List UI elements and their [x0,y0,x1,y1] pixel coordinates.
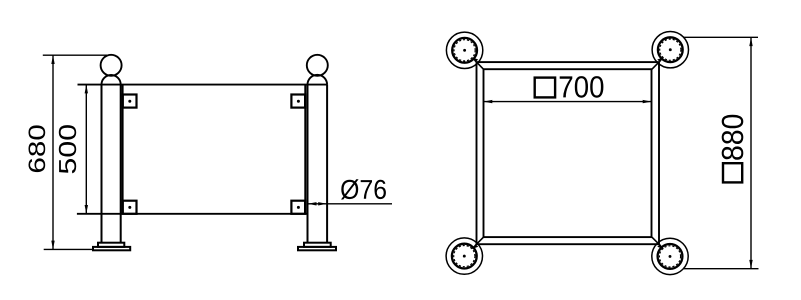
left post ball top [101,55,122,76]
dimension 500: arrow down [85,205,88,214]
right post base plate [298,247,336,250]
left post base step [98,243,124,247]
clip bottom-right [291,201,305,214]
label 680 (rotated) [29,125,46,172]
frame inner square [484,69,652,237]
wire: top rail line (panel top edge across both posts) [78,84,328,86]
dimension 680: arrow down [51,241,54,250]
left post body [101,85,103,243]
label square symbol of 880 (rotated block: square at bottom) [723,163,742,182]
dimension 700: arrow left [484,100,493,103]
dimension 880: dimension line [750,37,752,268]
right post ball top [307,55,328,76]
clip top-right [291,95,305,108]
dimension 880: arrow down [749,260,752,269]
dimension 880: extension line bottom [684,268,759,270]
right post dome cap [308,75,328,85]
post section top-right [652,32,688,68]
left post base plate [93,247,130,250]
wire: bottom rail line (panel bottom edge) [77,213,307,215]
frame outer square [477,62,660,244]
post section bottom-right [652,238,688,274]
corner chamfer bottom-left [477,237,484,244]
dimension 700: dimension line [484,101,652,103]
dimension 680: arrow up [51,55,54,64]
corner chamfer top-right [652,62,659,69]
dimension 500: dimension line [85,85,87,214]
dimension 680: dimension line [52,55,54,249]
label 880 (rotated) [722,115,744,160]
label square symbol of 700 [535,78,555,98]
dimension 680: extension line top [43,54,107,56]
panel left edge [122,85,124,214]
label O76 [341,179,386,199]
dimension 700: arrow right [643,100,652,103]
dimension O76: leader line [308,203,392,205]
corner chamfer bottom-right [652,237,659,244]
clip bottom-left [123,201,137,214]
right post base step [304,243,331,247]
dimension 880: extension line top [683,36,758,38]
dimension 680: extension line bottom [44,248,92,250]
clip top-left [123,95,137,108]
dimension 500: arrow up [85,85,88,94]
right post body [307,85,309,243]
label 700 [560,76,604,98]
post section top-left [446,32,482,68]
label 500 (rotated) [59,125,76,173]
left post dome cap [102,75,121,85]
dimension 880: arrow up [749,37,752,46]
dimension O76: arrow right [318,202,327,205]
post section bottom-left [446,238,482,274]
dimension O76: arrow left [308,202,317,205]
panel right edge [304,85,306,214]
corner chamfer top-left [477,62,484,69]
